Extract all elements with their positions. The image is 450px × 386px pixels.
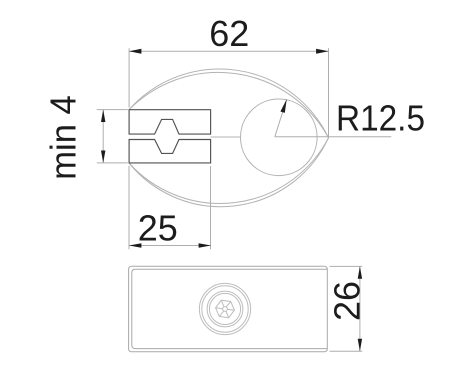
svg-text:26: 26 bbox=[327, 281, 368, 321]
svg-text:min 4: min 4 bbox=[43, 95, 84, 180]
svg-text:25: 25 bbox=[138, 207, 178, 248]
svg-text:R12.5: R12.5 bbox=[336, 97, 425, 138]
svg-text:62: 62 bbox=[209, 13, 249, 54]
